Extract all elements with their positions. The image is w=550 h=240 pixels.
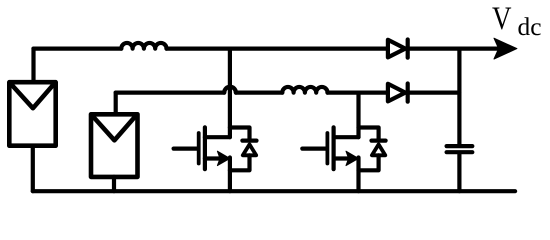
transistor Q2 drain lead bbox=[334, 135, 359, 139]
wire output node vertical lower bbox=[457, 154, 461, 191]
wire second rail to output node bbox=[408, 90, 460, 94]
PV source PV2 bottom lead bbox=[112, 177, 116, 191]
transistor Q1 gate bar bbox=[197, 133, 201, 164]
wire hop over Q1 riser bbox=[224, 87, 236, 93]
diode D2 bbox=[388, 84, 408, 102]
wire second rail to inductor L2 bbox=[236, 90, 282, 94]
transistor Q1 drain lead bbox=[205, 135, 230, 139]
body diode Q2 triangle bbox=[372, 144, 385, 155]
transistor Q1 source lead bbox=[205, 156, 219, 160]
body diode Q1 triangle bbox=[243, 144, 256, 155]
transistor Q2 source lead bbox=[334, 156, 348, 160]
wire second rail left segment bbox=[116, 90, 225, 94]
wire top rail right segment to arrow bbox=[408, 46, 499, 50]
capacitor C bbox=[447, 146, 473, 152]
inductor L2 bbox=[282, 87, 327, 93]
svg-text:V: V bbox=[492, 1, 512, 37]
transistor Q1 channel bar bbox=[203, 127, 207, 169]
wire top rail left segment bbox=[34, 46, 122, 50]
transistor Q2 gate lead bbox=[302, 147, 325, 151]
transistor Q2 channel bar bbox=[332, 127, 336, 169]
body diode Q1 top branch bbox=[230, 128, 250, 139]
PV source PV1 top lead bbox=[31, 49, 35, 83]
wire bottom rail bbox=[33, 189, 515, 193]
body diode Q2 cathode bar bbox=[372, 139, 386, 143]
arrowhead Vdc output bbox=[494, 38, 517, 59]
wire top rail middle segment bbox=[167, 46, 388, 50]
wire output node vertical upper bbox=[457, 49, 461, 144]
wire Q2 source drop to bottom rail bbox=[356, 158, 360, 192]
wire Q1 drain riser from top rail bbox=[228, 49, 232, 138]
label Vdc bbox=[492, 1, 542, 41]
body diode Q1 cathode bar bbox=[242, 139, 256, 143]
body diode Q1 bottom branch bbox=[230, 155, 250, 170]
transistor Q1 source arrow bbox=[217, 151, 230, 165]
transistor Q1 gate lead bbox=[174, 147, 197, 151]
PV source PV2 top lead bbox=[114, 93, 118, 115]
PV source PV2 body bbox=[91, 114, 138, 177]
wire second rail right of L2 bbox=[328, 90, 388, 94]
transistor Q2 source arrow bbox=[346, 151, 359, 165]
PV source PV1 bottom lead bbox=[31, 146, 35, 192]
PV source PV2 chevron bbox=[92, 115, 136, 140]
wire Q1 source drop to bottom rail bbox=[228, 158, 232, 192]
body diode Q2 top branch bbox=[359, 128, 379, 139]
svg-text:dc: dc bbox=[518, 14, 542, 41]
inductor L1 bbox=[121, 43, 166, 49]
diode D1 bbox=[388, 40, 408, 58]
transistor Q2 gate bar bbox=[325, 133, 329, 164]
PV source PV1 body bbox=[9, 82, 55, 146]
body diode Q2 bottom branch bbox=[359, 155, 379, 170]
PV source PV1 chevron bbox=[11, 83, 55, 108]
wire Q2 drain riser from second rail bbox=[356, 93, 360, 138]
